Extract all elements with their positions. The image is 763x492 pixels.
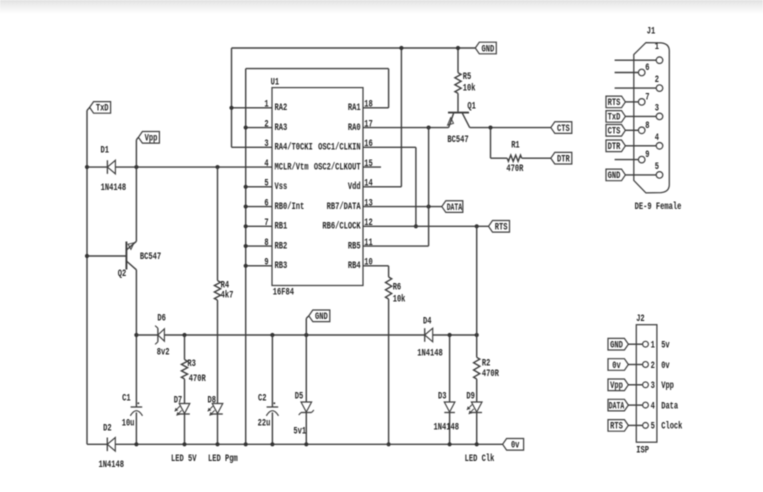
svg-text:GND: GND bbox=[608, 171, 621, 182]
svg-text:10k: 10k bbox=[393, 294, 406, 306]
svg-text:5v: 5v bbox=[661, 341, 670, 352]
svg-text:BC547: BC547 bbox=[447, 135, 468, 146]
node pin6 junction bbox=[244, 204, 248, 208]
node R2 junction bbox=[475, 333, 479, 337]
node 0v tag bbox=[503, 439, 524, 451]
wire pin12 CLOCK to RTS bbox=[363, 225, 489, 227]
svg-text:3: 3 bbox=[651, 381, 655, 392]
wire bottom rail bbox=[115, 443, 502, 445]
node left rail Q2 base junction bbox=[85, 254, 89, 258]
svg-text:R3: R3 bbox=[187, 359, 196, 370]
wire J1 pin2 stub bbox=[615, 87, 657, 89]
wire pin5 bbox=[246, 186, 272, 188]
diode D4 1N4148 bbox=[424, 328, 426, 342]
wire pin3 bbox=[232, 146, 273, 148]
node left rail MCLR junction bbox=[85, 165, 89, 169]
node RTS tag bbox=[489, 221, 510, 233]
pin J2-4 bbox=[643, 402, 649, 408]
svg-text:1: 1 bbox=[651, 341, 655, 352]
wire GND top rail y48 bbox=[232, 47, 476, 49]
node J2 0v tag bbox=[608, 359, 628, 371]
svg-text:7: 7 bbox=[645, 92, 649, 103]
node bottom rail D8 junction bbox=[215, 442, 219, 446]
wire MCLR line right bbox=[115, 166, 272, 168]
svg-text:RA1: RA1 bbox=[348, 103, 361, 114]
svg-text:D9: D9 bbox=[466, 392, 475, 403]
svg-text:1: 1 bbox=[264, 100, 268, 111]
svg-text:D3: D3 bbox=[438, 392, 447, 403]
svg-text:Data: Data bbox=[661, 401, 678, 412]
wire J2 tag to pin4 bbox=[628, 404, 642, 406]
wire mid rail right bbox=[433, 334, 477, 336]
power J1 GND tag bbox=[606, 169, 625, 181]
svg-text:BC547: BC547 bbox=[140, 252, 161, 263]
svg-text:17: 17 bbox=[364, 119, 373, 130]
wire GND mid leader bbox=[306, 316, 309, 319]
node J1 TxD tag bbox=[606, 111, 625, 123]
svg-text:MCLR/Vtm: MCLR/Vtm bbox=[275, 161, 309, 173]
svg-text:14: 14 bbox=[364, 179, 373, 190]
resistor R2 470R bbox=[476, 335, 478, 357]
svg-text:15: 15 bbox=[364, 159, 373, 170]
node bottom rail bus junction bbox=[244, 442, 248, 446]
node R6 bottom rail junction bbox=[387, 442, 391, 446]
node CTS tag bbox=[551, 122, 572, 134]
svg-text:RA2: RA2 bbox=[275, 103, 288, 114]
svg-text:LED Clk: LED Clk bbox=[465, 453, 495, 465]
node J2 Vpp tag bbox=[608, 379, 628, 391]
svg-text:D2: D2 bbox=[103, 423, 112, 434]
wire Vpp drop bbox=[135, 140, 137, 167]
svg-text:RB1: RB1 bbox=[275, 222, 288, 233]
svg-text:LED Pgm: LED Pgm bbox=[208, 454, 238, 465]
svg-text:4: 4 bbox=[651, 401, 655, 412]
node x415 clock junction bbox=[414, 224, 418, 228]
wire mid rail centre bbox=[164, 334, 424, 336]
wire J1 CTS to pin8 bbox=[625, 129, 638, 131]
wire Q2 emitter riser bbox=[135, 167, 137, 241]
svg-text:16F84: 16F84 bbox=[273, 288, 294, 299]
wire R6 column top bbox=[388, 266, 390, 277]
node pin12 x476 junction bbox=[475, 224, 479, 228]
wire J1 DTR to pin4 bbox=[625, 145, 656, 147]
svg-text:CTS: CTS bbox=[557, 124, 570, 135]
resistor R5 10k bbox=[457, 48, 459, 73]
svg-text:18: 18 bbox=[364, 100, 373, 111]
svg-text:Vpp: Vpp bbox=[610, 381, 623, 392]
svg-text:4: 4 bbox=[655, 133, 659, 144]
wire R1 left lead bbox=[491, 157, 508, 159]
svg-text:CTS: CTS bbox=[608, 127, 621, 138]
svg-text:D7: D7 bbox=[174, 395, 183, 406]
wire R1 right lead bbox=[522, 157, 551, 159]
svg-text:0v: 0v bbox=[511, 441, 520, 452]
wire pin17 RA0 to Q1 bbox=[363, 127, 449, 129]
wire inner loop horizontal y68 bbox=[246, 68, 389, 70]
svg-text:10: 10 bbox=[364, 258, 373, 269]
node pin8 junction bbox=[244, 244, 248, 248]
wire J2 tag to pin3 bbox=[628, 384, 642, 386]
node J1 CTS tag bbox=[606, 125, 625, 137]
svg-text:6: 6 bbox=[645, 63, 649, 74]
svg-text:TxD: TxD bbox=[608, 113, 621, 124]
power GND mid tag bbox=[309, 310, 330, 322]
wire pin16 OSC1 bbox=[363, 146, 416, 148]
node R5 top junction bbox=[456, 46, 460, 50]
node J2 RTS tag bbox=[608, 420, 628, 432]
resistor R1 470R bbox=[507, 155, 522, 161]
node TxD tag bbox=[90, 102, 111, 114]
transistor Q2 BC547 bbox=[125, 242, 127, 270]
svg-text:R6: R6 bbox=[393, 283, 402, 294]
node R3 junction bbox=[182, 333, 186, 337]
svg-text:1N4148: 1N4148 bbox=[417, 349, 443, 360]
svg-text:R5: R5 bbox=[463, 72, 472, 83]
wire R2 riser bbox=[476, 226, 478, 335]
wire pin14 Vdd bbox=[363, 186, 401, 188]
node J2 GND tag bbox=[608, 338, 628, 350]
svg-text:8: 8 bbox=[264, 238, 268, 249]
wire pin15 stub bbox=[363, 166, 381, 168]
wire J2 tag to pin5 bbox=[628, 424, 642, 426]
svg-text:D6: D6 bbox=[157, 314, 166, 325]
diode D3 1N4148 bbox=[449, 335, 451, 402]
svg-text:0v: 0v bbox=[661, 361, 670, 372]
svg-text:5: 5 bbox=[264, 179, 268, 190]
svg-text:9: 9 bbox=[264, 258, 268, 269]
svg-text:GND: GND bbox=[482, 44, 495, 55]
led D9 LED Clk bbox=[471, 402, 482, 412]
svg-text:C1: C1 bbox=[122, 393, 131, 404]
pin J1-8 bbox=[638, 127, 645, 134]
node pin17 x428 junction bbox=[427, 125, 431, 129]
svg-text:RB2: RB2 bbox=[275, 241, 288, 252]
wire pin13 DATA bbox=[363, 206, 442, 208]
node J1 RTS tag bbox=[606, 96, 625, 108]
node C2 junction bbox=[270, 333, 274, 337]
node pin7 junction bbox=[244, 224, 248, 228]
wire pin9 bbox=[246, 265, 272, 267]
wire J2 tag to pin1 bbox=[628, 343, 642, 345]
svg-text:3: 3 bbox=[655, 104, 659, 115]
svg-text:9: 9 bbox=[645, 150, 649, 161]
svg-text:4k7: 4k7 bbox=[221, 289, 234, 301]
pin J2-5 bbox=[643, 423, 649, 429]
svg-text:TxD: TxD bbox=[96, 104, 109, 115]
diode D5 zener 5v1 bbox=[305, 335, 307, 402]
node pin5 junction bbox=[244, 185, 248, 189]
diode D6 zener 8v2 bbox=[157, 328, 159, 342]
svg-text:RB4: RB4 bbox=[348, 261, 361, 272]
node bottom rail D7 junction bbox=[182, 442, 186, 446]
wire left rail x87 bbox=[86, 110, 88, 444]
wire left loop vertical x231 bbox=[231, 48, 233, 147]
svg-text:Vpp: Vpp bbox=[661, 381, 674, 392]
wire x428 vertical bbox=[428, 128, 430, 247]
svg-text:1N4148: 1N4148 bbox=[99, 460, 125, 471]
wire J1 GND to pin5 bbox=[625, 174, 656, 176]
svg-text:OSC1/CLKIN: OSC1/CLKIN bbox=[318, 142, 361, 154]
node pin2 junction bbox=[244, 125, 248, 129]
wire Vpp leader bbox=[136, 137, 138, 140]
svg-text:RB3: RB3 bbox=[275, 261, 288, 272]
svg-text:D4: D4 bbox=[423, 316, 432, 327]
pin J1-3 bbox=[656, 113, 663, 120]
node bottom rail D3 junction bbox=[448, 442, 452, 446]
svg-text:RB5: RB5 bbox=[348, 241, 361, 252]
svg-text:3: 3 bbox=[264, 139, 268, 150]
wire x415 OSC1 to CLOCK bbox=[415, 147, 417, 226]
wire pin7 bbox=[246, 225, 272, 227]
wire pin11 bbox=[363, 245, 429, 247]
resistor R3 470R bbox=[184, 335, 186, 360]
led D7 LED 5V bbox=[179, 404, 190, 414]
wire R6 column bottom bbox=[388, 299, 390, 444]
node bottom rail C1 junction bbox=[134, 442, 138, 446]
wire pin6 bbox=[246, 206, 272, 208]
svg-text:J2: J2 bbox=[636, 314, 645, 325]
node bottom rail D9 junction bbox=[475, 442, 479, 446]
wire pin10 RB4 bbox=[363, 265, 389, 267]
svg-text:C2: C2 bbox=[258, 393, 267, 404]
svg-text:RA4/T0CKI: RA4/T0CKI bbox=[275, 142, 313, 154]
svg-text:RA3: RA3 bbox=[275, 123, 288, 134]
wire Q2 base bbox=[87, 255, 126, 257]
svg-text:7: 7 bbox=[264, 218, 268, 229]
node pin9 junction bbox=[244, 264, 248, 268]
svg-text:Vpp: Vpp bbox=[145, 134, 158, 145]
svg-text:470R: 470R bbox=[506, 164, 523, 175]
svg-text:10k: 10k bbox=[463, 83, 476, 95]
node R4 top junction bbox=[215, 165, 219, 169]
node Vpp junction bbox=[134, 165, 138, 169]
wire pin18 bbox=[363, 107, 389, 109]
svg-text:R2: R2 bbox=[482, 359, 491, 370]
svg-text:16: 16 bbox=[364, 139, 373, 150]
svg-text:10u: 10u bbox=[122, 418, 135, 429]
wire GND mid drop bbox=[305, 318, 307, 335]
node DTR tag bbox=[551, 152, 572, 164]
svg-text:D8: D8 bbox=[208, 395, 217, 406]
svg-text:5v1: 5v1 bbox=[293, 427, 306, 438]
svg-text:8v2: 8v2 bbox=[157, 348, 170, 359]
svg-text:13: 13 bbox=[364, 198, 373, 209]
transistor Q1 BC547 bbox=[448, 112, 469, 114]
wire MCLR line left bbox=[87, 166, 107, 168]
node DATA tag bbox=[442, 201, 463, 213]
svg-text:5: 5 bbox=[651, 422, 655, 433]
svg-text:ISP: ISP bbox=[636, 445, 649, 456]
diode D2 1N4148 bbox=[106, 438, 108, 452]
wire R1 branch vertical bbox=[490, 128, 492, 159]
node Vdd top junction bbox=[399, 46, 403, 50]
svg-text:470R: 470R bbox=[482, 369, 499, 380]
wire bottom rail left bbox=[87, 443, 107, 445]
wire Vdd riser x401 bbox=[400, 48, 402, 187]
svg-text:DE-9 Female: DE-9 Female bbox=[635, 201, 682, 213]
connector J1 DE-9 body bbox=[634, 43, 670, 193]
svg-text:DTR: DTR bbox=[557, 155, 570, 166]
pin J1-5 bbox=[656, 172, 663, 179]
svg-text:1: 1 bbox=[655, 42, 659, 53]
svg-text:2: 2 bbox=[651, 361, 655, 372]
node CTS R1 junction bbox=[488, 125, 492, 129]
node bottom rail C2 junction bbox=[270, 442, 274, 446]
pin J1-7 bbox=[638, 99, 645, 106]
svg-text:Vdd: Vdd bbox=[348, 181, 361, 193]
node D3 junction bbox=[448, 333, 452, 337]
wire Q1 emitter to CTS bbox=[470, 127, 551, 129]
resistor R6 10k bbox=[386, 277, 392, 299]
wire pin2 bbox=[246, 127, 272, 129]
wire J1 pin6 stub bbox=[615, 72, 639, 74]
svg-text:4: 4 bbox=[264, 159, 268, 170]
svg-text:22u: 22u bbox=[258, 418, 271, 429]
wire pin8 bbox=[246, 245, 272, 247]
resistor R4 4k7 bbox=[217, 167, 219, 281]
wire J1 TxD to pin3 bbox=[625, 115, 656, 117]
pin J1-6 bbox=[638, 69, 645, 76]
pin J2-2 bbox=[643, 362, 649, 368]
svg-text:0v: 0v bbox=[612, 361, 621, 372]
pin J2-3 bbox=[643, 382, 649, 388]
svg-text:RB7/DATA: RB7/DATA bbox=[327, 201, 361, 213]
node Vpp tag bbox=[138, 132, 159, 144]
svg-text:D5: D5 bbox=[295, 392, 304, 403]
svg-text:Q2: Q2 bbox=[118, 269, 127, 280]
diode D1 1N4148 bbox=[106, 160, 108, 174]
svg-text:470R: 470R bbox=[189, 374, 206, 385]
svg-text:RB0/Int: RB0/Int bbox=[275, 201, 305, 213]
pin J1-4 bbox=[656, 143, 663, 150]
svg-text:Q1: Q1 bbox=[467, 102, 476, 113]
svg-text:11: 11 bbox=[364, 238, 373, 249]
svg-text:6: 6 bbox=[264, 198, 268, 209]
svg-text:U1: U1 bbox=[271, 77, 280, 88]
svg-text:RTS: RTS bbox=[610, 422, 623, 433]
svg-text:J1: J1 bbox=[647, 26, 656, 37]
node J1 DTR tag bbox=[606, 140, 625, 152]
wire J1 pin9 stub bbox=[615, 159, 639, 161]
node J2 DATA tag bbox=[608, 399, 628, 411]
wire bus x245 pins 2 5-9 to 0v bbox=[245, 69, 247, 445]
svg-text:5: 5 bbox=[655, 162, 659, 173]
connector J2 ISP body bbox=[636, 325, 657, 443]
svg-text:2: 2 bbox=[655, 75, 659, 86]
svg-text:LED 5V: LED 5V bbox=[171, 454, 197, 465]
capacitor C2 22u bbox=[267, 406, 279, 408]
node bottom rail D5 junction bbox=[304, 442, 308, 446]
node D5 junction bbox=[304, 333, 308, 337]
wire Q2 collector down bbox=[135, 270, 137, 407]
svg-text:RTS: RTS bbox=[608, 98, 621, 109]
svg-text:OSC2/CLKOUT: OSC2/CLKOUT bbox=[314, 161, 361, 173]
node pin13 x428 junction bbox=[427, 204, 431, 208]
node Q2 mid rail junction bbox=[134, 333, 138, 337]
led D8 LED Pgm bbox=[212, 404, 223, 414]
svg-text:DTR: DTR bbox=[608, 142, 621, 153]
svg-text:1N4148: 1N4148 bbox=[434, 423, 460, 434]
wire pin1 bbox=[232, 107, 273, 109]
pin J1-9 bbox=[638, 156, 645, 163]
svg-text:DATA: DATA bbox=[447, 203, 462, 214]
svg-text:1N4148: 1N4148 bbox=[101, 183, 127, 194]
svg-text:Clock: Clock bbox=[661, 421, 682, 433]
svg-text:GND: GND bbox=[315, 312, 328, 323]
svg-text:D1: D1 bbox=[101, 146, 110, 157]
wire mid rail left bbox=[136, 334, 158, 336]
pin J1-2 bbox=[656, 85, 663, 92]
node pin1 junction bbox=[229, 106, 233, 110]
svg-text:RB6/CLOCK: RB6/CLOCK bbox=[322, 221, 360, 233]
wire pin18 riser x388 bbox=[388, 69, 390, 108]
svg-text:R1: R1 bbox=[511, 140, 520, 151]
svg-text:Vss: Vss bbox=[275, 182, 288, 193]
wire J1 RTS to pin7 bbox=[625, 101, 638, 103]
svg-text:GND: GND bbox=[610, 341, 623, 352]
power GND top tag bbox=[475, 42, 496, 54]
wire J1 pin1 stub bbox=[615, 59, 657, 61]
svg-text:DATA: DATA bbox=[609, 401, 624, 412]
svg-text:2: 2 bbox=[264, 119, 268, 130]
pin J1-1 bbox=[656, 57, 663, 64]
pin J2-1 bbox=[643, 341, 649, 347]
IC U1 16F84 bbox=[272, 88, 363, 286]
wire TxD leader bbox=[87, 107, 90, 110]
svg-text:8: 8 bbox=[645, 121, 649, 132]
svg-text:RTS: RTS bbox=[495, 223, 508, 234]
capacitor C1 10u bbox=[131, 406, 143, 408]
wire J2 tag to pin2 bbox=[628, 364, 642, 366]
svg-text:RA0: RA0 bbox=[348, 123, 361, 134]
svg-text:12: 12 bbox=[364, 218, 373, 229]
